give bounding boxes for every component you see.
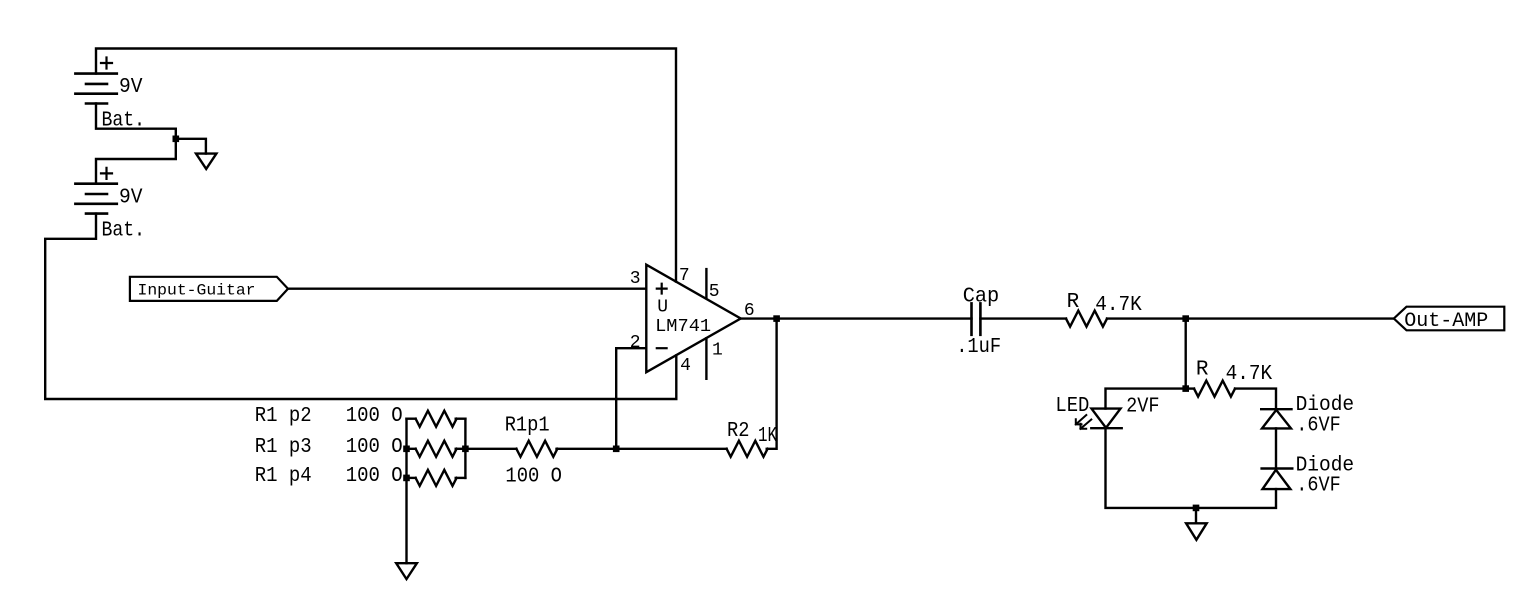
battery B2 9V: [75, 168, 116, 214]
svg-text:7: 7: [679, 266, 690, 286]
ground G1: [196, 154, 216, 169]
svg-text:4.7K: 4.7K: [1095, 294, 1142, 317]
svg-text:R2: R2: [727, 420, 750, 443]
node junction at output: [773, 315, 780, 322]
svg-text:Cap: Cap: [963, 285, 1000, 308]
svg-text:R: R: [1067, 291, 1080, 314]
svg-text:9V: 9V: [119, 76, 143, 99]
svg-text:R1p1: R1p1: [505, 415, 550, 438]
wire R1p1 to feedback node: [557, 448, 617, 450]
wire input to pin 3: [288, 288, 646, 290]
svg-text:4.7K: 4.7K: [1226, 363, 1273, 386]
svg-text:9V: 9V: [119, 186, 143, 209]
svg-text:.6VF: .6VF: [1296, 475, 1341, 498]
node junction feedback: [613, 446, 620, 453]
wire V+ rail from battery B1 plus to op-amp pin 7: [96, 49, 676, 282]
svg-text:Out-AMP: Out-AMP: [1404, 310, 1488, 333]
resistor R 4.7K right: [1186, 387, 1194, 389]
resistor network bus bars: [407, 419, 466, 478]
resistor R1 p4: [407, 470, 466, 486]
svg-text:U: U: [657, 297, 668, 317]
resistor R1 p3: [407, 441, 466, 457]
svg-text:R1 p4 100 O: R1 p4 100 O: [255, 465, 403, 488]
svg-text:Input-Guitar: Input-Guitar: [138, 282, 256, 300]
LED D1 2VF: [1076, 409, 1122, 429]
svg-text:R: R: [1196, 359, 1209, 382]
wire to ground G3: [1195, 508, 1197, 523]
svg-text:LED: LED: [1055, 395, 1089, 418]
wire clipper node to LED: [1106, 389, 1186, 409]
wire R2 to feedback node: [616, 448, 726, 450]
wire capacitor to resistor R top: [980, 317, 1066, 319]
wire op-amp output to capacitor: [741, 317, 972, 319]
wire bottom loop LED to D3: [1106, 428, 1277, 508]
wire V- rail from B2 minus to op-amp pin 4: [45, 214, 676, 399]
ground G2: [396, 563, 417, 579]
svg-text:R1 p3 100 O: R1 p3 100 O: [255, 436, 403, 459]
wire from B1 minus to B2 plus: [96, 104, 176, 184]
capacitor Cap .1uF: [972, 303, 981, 334]
svg-text:.6VF: .6VF: [1296, 414, 1341, 437]
wire D2 to D3: [1275, 428, 1277, 468]
resistor R1 p2: [407, 411, 466, 427]
resistor R 4.7K top: [1066, 311, 1107, 327]
svg-text:2: 2: [630, 333, 641, 353]
wire feedback from output node down to R2: [767, 319, 777, 449]
svg-text:1K: 1K: [758, 425, 777, 448]
node junction at battery midpoint: [173, 136, 180, 143]
diode D3 .6VF: [1262, 469, 1293, 490]
svg-text:100 O: 100 O: [505, 466, 562, 489]
wire network to R1p1: [465, 448, 516, 450]
wire feedback node up to pin 2: [616, 348, 646, 449]
battery B1 9V: [75, 58, 116, 104]
wire network to ground G2: [405, 478, 407, 563]
svg-text:LM741: LM741: [655, 317, 711, 337]
port flag Input-Guitar: [130, 277, 288, 301]
node junction output row: [1182, 315, 1189, 322]
diode D2 .6VF: [1261, 409, 1291, 428]
svg-text:Bat.: Bat.: [102, 220, 146, 243]
node junction bottom ground: [1193, 505, 1200, 512]
svg-text:2VF: 2VF: [1126, 395, 1160, 418]
port flag Out-AMP: [1394, 307, 1505, 331]
svg-text:.1uF: .1uF: [956, 336, 1001, 359]
wire resistor to Out-AMP flag: [1107, 317, 1394, 319]
op-amp U LM741: [646, 265, 740, 379]
svg-text:1: 1: [712, 340, 723, 360]
svg-text:4: 4: [680, 356, 691, 376]
ground G3: [1186, 523, 1207, 540]
resistor R1p1: [516, 441, 557, 457]
resistor R2: [727, 441, 768, 457]
svg-text:3: 3: [630, 269, 641, 289]
wire down to clipper node: [1184, 319, 1186, 389]
svg-text:5: 5: [709, 282, 720, 302]
node junction clipper: [1182, 385, 1189, 392]
wire resistor to diode D2: [1235, 389, 1276, 410]
node junctions on network: [403, 446, 410, 453]
wire to ground G1: [176, 139, 206, 154]
svg-text:R1 p2 100 O: R1 p2 100 O: [255, 405, 403, 428]
